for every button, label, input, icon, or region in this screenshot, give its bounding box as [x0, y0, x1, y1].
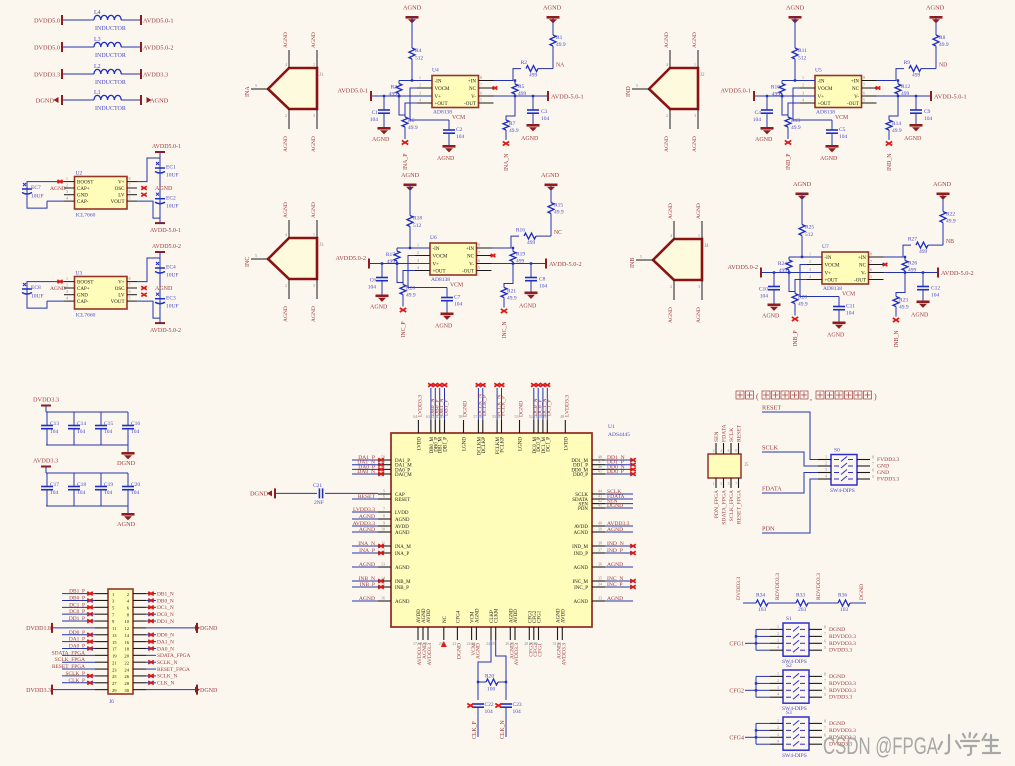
svg-text:7: 7	[478, 250, 480, 255]
svg-text:BOOST: BOOST	[77, 181, 93, 186]
svg-text:AVDD: AVDD	[514, 609, 519, 623]
svg-text:R34: R34	[756, 593, 765, 599]
svg-text:R20: R20	[485, 674, 494, 680]
pin 4	[288, 50, 290, 68]
resistor R8	[933, 35, 949, 48]
wire	[62, 668, 95, 670]
svg-text:DGND: DGND	[36, 97, 55, 104]
svg-text:7: 7	[824, 725, 826, 730]
svg-text:C14: C14	[77, 421, 86, 427]
svg-text:49.9: 49.9	[791, 125, 801, 131]
svg-text:S1: S1	[786, 616, 792, 622]
pin CFG2 U1	[533, 627, 535, 640]
svg-text:49.9: 49.9	[408, 125, 418, 131]
pin 1	[316, 50, 318, 68]
svg-text:DB0_P: DB0_P	[69, 595, 85, 601]
svg-text:2: 2	[670, 284, 672, 289]
wire	[62, 599, 95, 601]
op-amp U7 AD8138	[807, 244, 884, 292]
pin SDATA U1	[592, 498, 605, 500]
wire	[921, 68, 936, 70]
wire	[411, 21, 413, 48]
wire	[352, 498, 378, 500]
no-erc marker	[476, 383, 482, 386]
wire	[439, 388, 441, 420]
svg-text:2: 2	[419, 83, 421, 88]
pin FCLKM U1	[496, 420, 498, 433]
svg-text:CFG1: CFG1	[729, 641, 744, 647]
svg-text:C4: C4	[755, 110, 762, 116]
svg-text:AGND: AGND	[395, 600, 410, 605]
svg-text:8: 8	[383, 514, 385, 519]
svg-text:4: 4	[825, 474, 827, 479]
capacitor C11	[833, 297, 855, 322]
svg-text:DC0_N: DC0_N	[157, 612, 174, 618]
wire	[146, 668, 156, 670]
pin bottom 5 J5	[730, 478, 732, 488]
svg-text:J2: J2	[700, 73, 705, 78]
pin AGND U1	[557, 627, 559, 640]
wire	[794, 21, 796, 48]
svg-text:DCLKP: DCLKP	[482, 437, 487, 454]
svg-text:5: 5	[824, 692, 826, 697]
svg-text:8: 8	[480, 75, 482, 80]
svg-text:INB_P: INB_P	[359, 582, 375, 588]
no-erc marker	[630, 463, 636, 466]
inductor L2	[94, 64, 126, 86]
svg-text:49.9: 49.9	[556, 42, 566, 48]
no-erc marker	[378, 463, 384, 466]
pin 2	[669, 109, 671, 129]
svg-text:U7: U7	[822, 244, 829, 250]
power port DGND	[196, 623, 198, 633]
svg-text:R12: R12	[901, 84, 910, 90]
svg-text:7: 7	[480, 83, 482, 88]
svg-text:-IN: -IN	[825, 256, 832, 261]
svg-text:AVDD5.0-2: AVDD5.0-2	[152, 244, 181, 250]
svg-text:36: 36	[598, 562, 602, 567]
svg-text:AGND: AGND	[607, 562, 623, 568]
svg-text:8: 8	[870, 252, 872, 257]
pin AVDD U1	[592, 525, 605, 527]
svg-text:EC8: EC8	[31, 285, 41, 291]
wire	[146, 654, 156, 656]
svg-text:49.9: 49.9	[939, 42, 949, 48]
svg-text:LGND: LGND	[519, 437, 524, 451]
wire	[146, 627, 196, 629]
svg-text:104: 104	[368, 285, 377, 291]
svg-text:-OUT: -OUT	[462, 270, 474, 275]
resistor R14	[886, 120, 902, 134]
resistor R36	[838, 593, 850, 614]
no-erc marker	[540, 383, 546, 386]
ground AGND	[768, 304, 781, 311]
wire	[801, 198, 803, 225]
no-erc marker	[428, 383, 434, 386]
wire -IN	[802, 256, 822, 258]
svg-text:NA: NA	[556, 63, 565, 69]
svg-text:7: 7	[863, 83, 865, 88]
svg-text:DVDD3.3: DVDD3.3	[736, 577, 742, 600]
svg-text:INA_P: INA_P	[359, 548, 375, 554]
svg-text:CFG1: CFG1	[538, 610, 543, 623]
svg-text:AGND: AGND	[904, 136, 922, 142]
svg-text:U2: U2	[76, 171, 83, 177]
no-erc marker	[886, 142, 892, 146]
capacitor C23	[500, 702, 522, 737]
svg-text:AGND: AGND	[692, 136, 698, 152]
svg-text:AGND: AGND	[762, 314, 780, 320]
wire CLKP	[478, 640, 491, 700]
capacitor EC2	[155, 193, 179, 210]
wire	[782, 96, 788, 115]
pin AGND U1	[378, 600, 391, 602]
pin FCLKP U1	[501, 420, 503, 433]
svg-text:5: 5	[872, 474, 874, 479]
svg-text:AGND: AGND	[283, 306, 289, 322]
component U2 ICL7660	[64, 171, 137, 219]
svg-text:+IN: +IN	[851, 80, 859, 85]
svg-text:4: 4	[809, 274, 811, 279]
ground AGND	[376, 295, 389, 302]
svg-text:DGND: DGND	[117, 460, 136, 467]
svg-text:AGND: AGND	[283, 202, 289, 218]
svg-text:1: 1	[777, 624, 779, 629]
ground AGND	[378, 127, 391, 134]
no-erc marker NC	[491, 254, 496, 257]
pin 5 INC	[251, 258, 268, 260]
svg-text:AVDD3.3: AVDD3.3	[562, 643, 568, 666]
no-erc marker	[148, 633, 154, 636]
pin 1	[697, 50, 699, 68]
wire CLKM	[496, 640, 506, 700]
svg-text:24: 24	[124, 667, 129, 672]
no-erc marker LV	[141, 293, 147, 296]
wire	[605, 473, 633, 475]
svg-text:RESET_FPGA: RESET_FPGA	[157, 667, 190, 673]
svg-text:DB1_P: DB1_P	[69, 589, 85, 595]
svg-text:DC1_N: DC1_N	[157, 605, 174, 611]
svg-text:-IN: -IN	[433, 247, 440, 252]
svg-text:OSC: OSC	[115, 287, 125, 292]
svg-text:49.9: 49.9	[406, 293, 416, 299]
capacitor EC7	[22, 182, 47, 209]
pin 4	[673, 221, 675, 239]
svg-text:J4: J4	[704, 244, 709, 249]
svg-text:5: 5	[636, 83, 638, 88]
no-erc marker	[87, 647, 93, 650]
svg-text:INC_P: INC_P	[574, 586, 588, 591]
svg-text:LVDD: LVDD	[395, 511, 409, 516]
svg-text:AGND: AGND	[786, 5, 805, 12]
no-erc marker	[630, 472, 636, 475]
svg-text:4: 4	[777, 739, 779, 744]
svg-text:DC0_P: DC0_P	[69, 609, 85, 615]
ground AGND	[917, 301, 930, 308]
pin INA_P U1	[378, 552, 391, 554]
svg-text:DC1_P: DC1_P	[69, 602, 85, 608]
svg-text:V+: V+	[818, 95, 825, 100]
pin LGND U1	[463, 420, 465, 433]
svg-text:S0: S0	[834, 448, 840, 454]
svg-text:R19: R19	[516, 252, 525, 258]
wire	[794, 59, 796, 81]
svg-text:SCLK_N: SCLK_N	[157, 674, 177, 680]
svg-text:+OUT: +OUT	[818, 102, 831, 107]
svg-text:AGND: AGND	[933, 181, 952, 188]
svg-text:R5: R5	[518, 84, 525, 90]
wire	[121, 99, 140, 101]
pin LVDD U1	[417, 420, 419, 433]
svg-text:18: 18	[124, 647, 129, 652]
svg-text:AVDD-5.0-1: AVDD-5.0-1	[551, 94, 584, 101]
wire -IN	[412, 80, 432, 82]
wire rail	[755, 95, 815, 97]
svg-text:VOUT: VOUT	[111, 300, 125, 305]
svg-text:1: 1	[66, 176, 68, 181]
pin INC_P U1	[592, 586, 605, 588]
svg-text:AGND: AGND	[311, 202, 317, 218]
svg-text:J1: J1	[319, 73, 324, 78]
svg-text:AGND: AGND	[370, 305, 388, 311]
svg-text:37: 37	[598, 548, 602, 553]
wire	[605, 545, 633, 547]
wire	[399, 80, 412, 82]
svg-text:8: 8	[863, 75, 865, 80]
svg-text:29: 29	[112, 688, 117, 693]
svg-text:6: 6	[383, 494, 385, 499]
wire	[62, 606, 95, 608]
svg-text:AGND: AGND	[155, 286, 173, 292]
svg-text:(: (	[756, 392, 759, 401]
svg-text:R14: R14	[892, 121, 901, 127]
svg-text:R22: R22	[946, 212, 955, 218]
wire	[352, 586, 378, 588]
svg-text:AGND: AGND	[541, 172, 560, 179]
svg-text:-OUT: -OUT	[464, 102, 476, 107]
no-erc marker	[378, 551, 384, 554]
svg-text:R11: R11	[798, 48, 807, 54]
svg-text:10: 10	[124, 619, 129, 624]
svg-text:6: 6	[870, 267, 872, 272]
pin DA0_M U1	[378, 473, 391, 475]
svg-text:VCM: VCM	[842, 292, 855, 298]
svg-text:AGND: AGND	[820, 156, 838, 162]
svg-text:C18: C18	[77, 482, 86, 488]
capacitor EC8	[22, 282, 47, 309]
svg-text:DVDD3.3: DVDD3.3	[829, 695, 852, 701]
resistor R13	[785, 117, 801, 131]
ground AGND	[833, 322, 846, 329]
wire	[352, 525, 378, 527]
svg-text:CFG2: CFG2	[729, 688, 744, 694]
svg-text:DA1_N: DA1_N	[157, 639, 174, 645]
pin top 4 J5	[723, 443, 725, 454]
svg-text:AGND: AGND	[403, 5, 422, 12]
pin DCLKM U1	[477, 420, 479, 433]
wire PDN	[762, 479, 818, 533]
pin DB0_P U1	[434, 420, 436, 433]
svg-text:AGND: AGND	[574, 531, 589, 536]
wire	[352, 473, 378, 475]
no-erc marker	[545, 383, 551, 386]
svg-text:DVDD3.3: DVDD3.3	[34, 71, 60, 78]
svg-text:V+: V+	[825, 272, 832, 277]
svg-text:AVDD5.0-1: AVDD5.0-1	[143, 17, 174, 24]
svg-text:5: 5	[480, 98, 482, 103]
svg-text:AGND: AGND	[692, 32, 698, 48]
title serial config note	[736, 391, 754, 399]
ground AGND	[527, 124, 540, 131]
svg-text:V-: V-	[469, 263, 474, 268]
wire	[542, 388, 544, 420]
pin DB0_M U1	[430, 420, 432, 433]
pin VCM U1	[471, 627, 473, 640]
pin AVDD U1	[378, 525, 391, 527]
svg-text:PDN: PDN	[762, 526, 775, 533]
svg-text:2: 2	[777, 631, 779, 636]
wire -IN	[410, 247, 430, 249]
svg-text:AGND: AGND	[607, 527, 623, 533]
svg-text:INA_M: INA_M	[395, 545, 411, 550]
capacitor C4	[753, 96, 773, 127]
pin CLKP U1	[490, 627, 492, 640]
component U1 ADS4445	[391, 424, 630, 627]
svg-text:AGND: AGND	[401, 172, 420, 179]
svg-text:8: 8	[735, 449, 737, 453]
svg-text:C12: C12	[931, 286, 940, 292]
switch S1 SW4-DIPS	[770, 616, 822, 665]
svg-text:AGND: AGND	[150, 97, 169, 104]
svg-text:49.9: 49.9	[798, 302, 808, 308]
svg-text:4: 4	[777, 692, 779, 697]
svg-text:C3: C3	[541, 109, 548, 115]
svg-text:C23: C23	[513, 702, 522, 708]
svg-text:VOUT: VOUT	[111, 200, 125, 205]
svg-text:AGND: AGND	[696, 203, 702, 219]
svg-text:INB_P: INB_P	[395, 586, 409, 591]
no-erc marker	[378, 585, 384, 588]
pin AVDD U1	[427, 627, 429, 640]
svg-text:DGND: DGND	[463, 401, 469, 417]
no-erc marker	[630, 468, 636, 471]
svg-text:104: 104	[924, 116, 933, 122]
svg-text:IND_N: IND_N	[607, 541, 624, 547]
svg-text:SCLK_FPGA: SCLK_FPGA	[729, 490, 735, 521]
svg-text:2NF: 2NF	[314, 500, 324, 506]
svg-text:GND: GND	[877, 464, 889, 470]
svg-text:LVDD3.3: LVDD3.3	[353, 507, 375, 513]
svg-text:C5: C5	[839, 127, 846, 133]
pin bottom 7 J5	[738, 478, 740, 488]
svg-text:SW4-DIPS: SW4-DIPS	[830, 488, 855, 494]
wire	[550, 190, 552, 203]
svg-text:AGND: AGND	[283, 136, 289, 152]
svg-text:DVDD3.3: DVDD3.3	[33, 397, 59, 404]
svg-text:17: 17	[112, 647, 117, 652]
capacitor C20	[122, 473, 140, 506]
svg-text:AGND: AGND	[543, 5, 562, 12]
svg-text:AVDD-5.0-1: AVDD-5.0-1	[150, 228, 181, 234]
svg-text:104: 104	[456, 134, 465, 140]
svg-text:DA0_N: DA0_N	[157, 646, 174, 652]
wire input bracket S3	[745, 723, 770, 744]
svg-text:DA0_N: DA0_N	[357, 469, 375, 475]
svg-text:AGND: AGND	[664, 136, 670, 152]
no-erc marker OSC	[141, 286, 147, 289]
svg-text:2: 2	[802, 83, 804, 88]
no-erc marker	[87, 681, 93, 684]
svg-text:INB: INB	[630, 258, 636, 268]
svg-text:R3: R3	[391, 85, 398, 91]
resistor R6	[402, 117, 418, 131]
svg-text:7: 7	[129, 183, 131, 188]
svg-text:R9: R9	[904, 60, 911, 66]
svg-text:RESET_FPGA: RESET_FPGA	[737, 490, 743, 524]
svg-text:8: 8	[824, 624, 826, 629]
wire	[146, 599, 156, 601]
svg-text:RESET: RESET	[358, 494, 376, 500]
svg-text:AVDD5.0-2: AVDD5.0-2	[143, 44, 174, 51]
wire SCLK	[762, 452, 818, 466]
pin LGND U1	[519, 420, 521, 433]
wire	[444, 388, 446, 420]
svg-text:499: 499	[919, 249, 928, 255]
svg-text:DB1_N: DB1_N	[157, 591, 174, 597]
svg-text:LVDD3.3: LVDD3.3	[565, 395, 571, 417]
svg-text:4: 4	[285, 62, 287, 67]
svg-text:499: 499	[529, 73, 538, 79]
wire	[53, 689, 95, 691]
svg-text:DGND: DGND	[200, 688, 218, 694]
svg-text:INDUCTOR: INDUCTOR	[95, 80, 126, 86]
no-erc marker	[148, 606, 154, 609]
ground AGND	[443, 145, 456, 152]
svg-text:SDATA_FPGA: SDATA_FPGA	[52, 650, 86, 656]
no-erc marker pin1 U3	[57, 280, 62, 283]
svg-text:RDVDD3.3: RDVDD3.3	[829, 681, 856, 687]
op-amp U6 AD8138	[415, 235, 492, 283]
svg-text:10UF: 10UF	[166, 204, 179, 210]
wire bottom rail	[46, 444, 128, 446]
svg-text:3: 3	[802, 91, 804, 96]
svg-text:R6: R6	[408, 118, 415, 124]
pin LVDD U1	[378, 511, 391, 513]
wire VOUT	[137, 201, 160, 218]
resistor R24	[778, 257, 792, 274]
svg-text:5: 5	[863, 98, 865, 103]
pin CFG3 U1	[528, 627, 530, 640]
wire	[146, 661, 156, 663]
svg-text:2: 2	[285, 283, 287, 288]
svg-text:27: 27	[112, 681, 117, 686]
wire	[47, 200, 64, 202]
svg-text:U4: U4	[432, 68, 439, 74]
pin DA0_P U1	[378, 468, 391, 470]
svg-text:LV: LV	[118, 294, 125, 299]
svg-text:4: 4	[66, 296, 68, 301]
wire	[942, 199, 944, 212]
ground AGND	[910, 124, 923, 131]
svg-text:10UF: 10UF	[31, 294, 44, 300]
no-erc marker	[433, 383, 439, 386]
svg-text:FDATA: FDATA	[722, 424, 728, 442]
wire	[352, 545, 378, 547]
svg-text:V-: V-	[861, 272, 866, 277]
svg-text:499: 499	[387, 259, 396, 265]
wire	[62, 675, 95, 677]
svg-text:DB0_N: DB0_N	[157, 598, 174, 604]
